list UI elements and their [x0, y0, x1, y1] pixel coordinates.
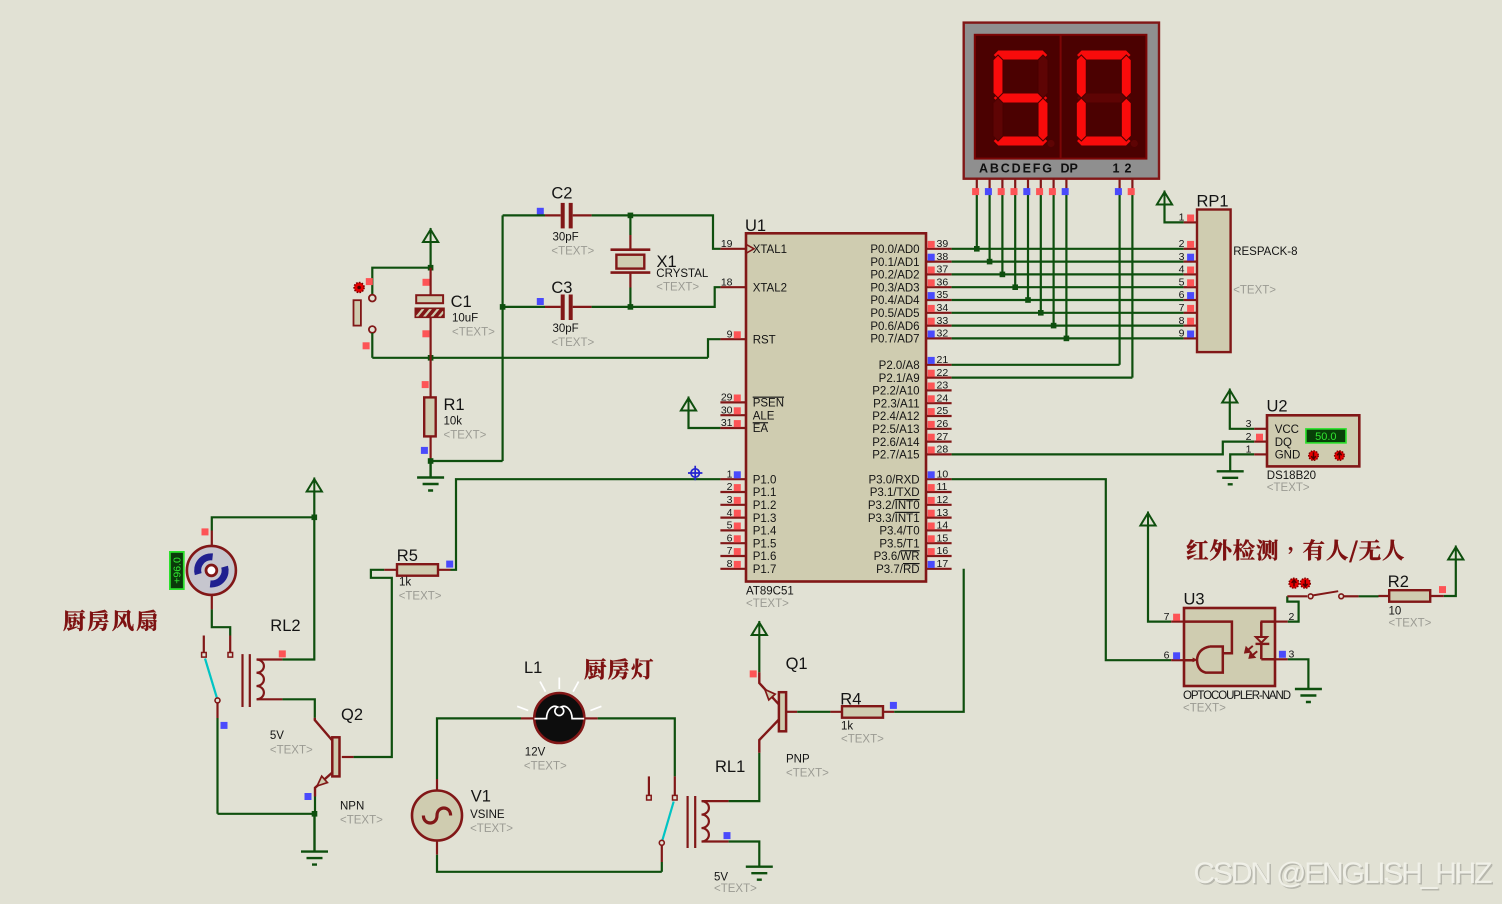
C2 left logic-state square	[537, 208, 544, 215]
junction R1 bottom node	[428, 458, 434, 464]
svg-text:8: 8	[1179, 315, 1185, 327]
svg-text:VSINE: VSINE	[470, 809, 505, 821]
fan bottom rail	[218, 813, 315, 815]
U1 pin 36 P0.3/AD3	[926, 286, 952, 288]
display segment pin C wire	[1001, 179, 1003, 192]
U1 pin 39 P0.0/AD0	[926, 248, 952, 250]
svg-text:<TEXT>: <TEXT>	[1183, 703, 1226, 715]
U1 pin 9 RST	[720, 338, 746, 340]
svg-text:30: 30	[721, 404, 733, 416]
svg-text:22: 22	[937, 367, 949, 379]
svg-text:CRYSTAL: CRYSTAL	[656, 268, 709, 280]
svg-text:P0.5/AD5: P0.5/AD5	[870, 308, 919, 320]
C3 left logic-state square	[537, 298, 544, 305]
mcu U1 AT89C51 body	[746, 233, 926, 581]
svg-text:2: 2	[1179, 238, 1185, 250]
svg-text:DS18B20: DS18B20	[1267, 470, 1316, 482]
svg-text:<TEXT>: <TEXT>	[340, 815, 383, 827]
svg-text:16: 16	[937, 545, 949, 557]
R1 bottom lead	[430, 436, 432, 461]
svg-text:<TEXT>: <TEXT>	[656, 282, 699, 294]
U2 pin 2	[1254, 441, 1267, 443]
relay RL1 NC post	[648, 776, 650, 795]
wire C3 right to X1 bottom node	[592, 306, 631, 308]
RL2 coil top logic-state square	[279, 650, 286, 657]
wire X1 node to XTAL1	[630, 215, 720, 248]
wire power to RP1 pin1	[1165, 205, 1184, 222]
U1 pin 1 P1.0	[720, 478, 746, 480]
svg-text:18: 18	[721, 276, 733, 288]
resistor R4	[842, 706, 883, 718]
svg-text:<TEXT>: <TEXT>	[714, 883, 757, 895]
svg-text:P2.0/A8: P2.0/A8	[879, 360, 920, 372]
RL1 pivot lead	[661, 846, 663, 863]
svg-text:P2.2/A10: P2.2/A10	[872, 386, 919, 398]
rail button/C1/RST	[372, 357, 708, 359]
wire switch to R2	[1359, 595, 1379, 597]
svg-text:C1: C1	[451, 293, 472, 311]
svg-text:L1: L1	[524, 659, 542, 677]
ground below RL1	[746, 867, 773, 880]
svg-text:5: 5	[1179, 276, 1185, 288]
wire Q2 emitter to rail	[314, 797, 316, 814]
wire R2 to power	[1444, 560, 1456, 596]
RP1 pin 9	[1184, 337, 1197, 339]
svg-text:13: 13	[937, 507, 949, 519]
svg-text:EA: EA	[753, 423, 769, 435]
svg-text:P2.1/A9: P2.1/A9	[879, 373, 920, 385]
svg-text:19: 19	[721, 238, 733, 250]
svg-text:<TEXT>: <TEXT>	[524, 761, 567, 773]
U1 pin 2 P1.1	[720, 491, 746, 493]
U1 pin 35 P0.4/AD4	[926, 299, 952, 301]
svg-text:GND: GND	[1275, 450, 1301, 462]
resistor pack RP1 body	[1197, 210, 1231, 353]
capacitor C2	[561, 203, 565, 229]
U1 pin 25 P2.4/A12	[926, 415, 952, 417]
svg-text:P3.3/INT1: P3.3/INT1	[868, 513, 920, 525]
power arrow above C1	[423, 228, 438, 243]
U1 pin 28 P2.7/A15	[926, 453, 952, 455]
IR switch up knob	[1289, 578, 1299, 588]
wire rail to RST pin	[708, 339, 720, 358]
junction C1 bottom	[428, 355, 434, 361]
wire button bottom to rail	[371, 333, 373, 358]
svg-text:37: 37	[937, 264, 949, 276]
button bottom logic-state square	[363, 342, 370, 349]
svg-text:U2: U2	[1267, 398, 1288, 416]
wire P2.7 to U2 DQ	[952, 442, 1255, 455]
svg-text:<TEXT>: <TEXT>	[786, 768, 829, 780]
motor rpm readout +96.0	[170, 552, 184, 589]
wire R1 node to ladder	[431, 460, 503, 462]
C1 top logic-state square	[423, 279, 430, 286]
L1 light rays	[517, 678, 601, 711]
U1 pin 3 P1.2	[720, 504, 746, 506]
U2 temperature readout 50.0	[1306, 429, 1346, 443]
svg-text:5V: 5V	[270, 730, 284, 742]
junction C1 top node	[428, 265, 434, 271]
wire RL2 pivot to rail	[216, 718, 218, 814]
wire V1 to L1	[437, 718, 521, 779]
svg-text:39: 39	[937, 238, 949, 250]
svg-text:P2.6/A14: P2.6/A14	[872, 437, 920, 449]
U1 pin 21 P2.0/A8	[926, 364, 952, 366]
wire C2 right to X1 top node	[592, 214, 631, 216]
U1 pin 16 P3.6/WR	[926, 555, 952, 557]
wire P0.1 bus row	[952, 261, 1184, 263]
wire power to U2 VCC	[1230, 403, 1254, 429]
svg-text:8: 8	[727, 558, 733, 570]
svg-text:V1: V1	[471, 788, 491, 806]
display segment pin D wire	[1014, 179, 1016, 192]
U1 pin 6 P1.5	[720, 542, 746, 544]
label infrared detection (Chinese)	[1187, 539, 1404, 562]
svg-text:OPTOCOUPLER-NAND: OPTOCOUPLER-NAND	[1183, 690, 1291, 702]
V1 bottom lead	[436, 841, 438, 855]
svg-text:XTAL1: XTAL1	[753, 244, 787, 256]
svg-text:30pF: 30pF	[553, 323, 579, 335]
U1 pin 27 P2.6/A14	[926, 441, 952, 443]
U1 pin 13 P3.3/INT1	[926, 516, 952, 518]
svg-text:P3.4/T0: P3.4/T0	[879, 526, 919, 538]
wire RL1 pivot to rail	[661, 862, 663, 872]
svg-text:11: 11	[937, 481, 948, 493]
svg-text:23: 23	[937, 380, 949, 392]
svg-text:6: 6	[1179, 289, 1185, 301]
svg-text:14: 14	[937, 520, 949, 532]
svg-text:P3.6/WR: P3.6/WR	[874, 551, 920, 563]
svg-text:P3.7/RD: P3.7/RD	[876, 564, 919, 576]
svg-text:VCC: VCC	[1275, 424, 1299, 436]
wire X1 bottom node to XTAL2	[630, 287, 720, 307]
U1 pin 10 P3.0/RXD	[926, 478, 952, 480]
R4 right logic-state square	[890, 702, 897, 709]
7-seg DP dot units	[1131, 140, 1138, 147]
wire power to EA	[689, 411, 721, 428]
svg-text:P1.6: P1.6	[753, 551, 777, 563]
svg-text:10k: 10k	[444, 416, 463, 428]
relay RL2 pivot	[215, 698, 220, 703]
ground below U3 pin3	[1295, 689, 1322, 702]
resistor R1	[424, 397, 436, 436]
svg-text:P1.3: P1.3	[753, 513, 777, 525]
svg-text:RESPACK-8: RESPACK-8	[1233, 246, 1297, 258]
U1 pin 14 P3.4/T0	[926, 529, 952, 531]
svg-text:3: 3	[1179, 251, 1185, 263]
wire Q2 base to R5	[354, 570, 392, 757]
U3 pin 3	[1275, 658, 1288, 660]
origin marker on P1.0 wire	[688, 466, 702, 480]
svg-text:R2: R2	[1388, 573, 1409, 591]
R1 bottom logic-state square	[421, 447, 428, 454]
U1 pin 34 P0.5/AD5	[926, 312, 952, 314]
svg-text:6: 6	[727, 532, 733, 544]
wire P0.6 bus row	[952, 325, 1184, 327]
wire U2 GND to ground	[1230, 454, 1254, 470]
wire Q1 base to R4	[797, 711, 830, 713]
wire motor bottom to RL2 contact	[212, 609, 230, 635]
transistor Q1 PNP	[759, 672, 779, 704]
RP1 pin 4	[1184, 273, 1197, 275]
R1 top logic-state square	[422, 381, 429, 388]
svg-text:<TEXT>: <TEXT>	[551, 246, 594, 258]
ground fan rail	[301, 814, 328, 865]
svg-text:U1: U1	[745, 217, 766, 235]
svg-text:P0.6/AD6: P0.6/AD6	[870, 321, 919, 333]
svg-text:3: 3	[727, 494, 733, 506]
svg-text:30pF: 30pF	[553, 232, 579, 244]
svg-text:P3.2/INT0: P3.2/INT0	[868, 500, 920, 512]
svg-text:26: 26	[937, 418, 949, 430]
RP1 pin 7	[1184, 312, 1197, 314]
U2 down-adjust knob	[1309, 451, 1319, 461]
U1 pin 23 P2.2/A10	[926, 389, 952, 391]
svg-text:10uF: 10uF	[452, 313, 478, 325]
wire L1 to RL1 contact	[598, 718, 675, 776]
svg-text:P3.0/RXD: P3.0/RXD	[868, 474, 919, 486]
RP1 pin 3	[1184, 261, 1197, 263]
resistor R2	[1389, 590, 1430, 602]
svg-text:AT89C51: AT89C51	[746, 586, 794, 598]
svg-text:P2.3/A11: P2.3/A11	[873, 398, 919, 410]
U3 pin 7	[1171, 620, 1184, 622]
svg-text:9: 9	[1179, 328, 1185, 340]
wire RL2 coil top to fan node	[282, 517, 314, 659]
svg-text:P0.3/AD3: P0.3/AD3	[870, 282, 919, 294]
7-seg digit units = 0	[1076, 50, 1131, 60]
svg-text:P0.4/AD4: P0.4/AD4	[870, 295, 920, 307]
svg-text:28: 28	[937, 444, 949, 456]
svg-text:7: 7	[727, 545, 733, 557]
Q1 emitter logic-state square	[750, 670, 757, 677]
ground below U2	[1217, 471, 1244, 484]
label kitchen fan (Chinese)	[64, 610, 157, 631]
R1 top lead	[430, 358, 432, 398]
svg-text:34: 34	[937, 302, 949, 314]
svg-text:36: 36	[937, 276, 949, 288]
IR switch left lead	[1287, 595, 1307, 597]
svg-text:25: 25	[937, 405, 949, 417]
svg-text:P2.5/A13: P2.5/A13	[872, 424, 919, 436]
wire U3 pin2 to switch	[1287, 596, 1298, 621]
svg-text:29: 29	[721, 392, 733, 404]
svg-text:P1.1: P1.1	[753, 487, 777, 499]
button interactive knob	[354, 283, 364, 293]
U1 pin 12 P3.2/INT0	[926, 504, 952, 506]
power arrow right of R2	[1448, 546, 1463, 561]
wire RL1 coil top to Q1 collector	[729, 753, 760, 801]
display segment pin B wire	[988, 179, 990, 192]
relay RL1 blade (cyan)	[663, 802, 674, 840]
7-segment display frame	[964, 23, 1159, 179]
C1 bottom logic-state square	[422, 330, 429, 337]
U1 pin 37 P0.2/AD2	[926, 273, 952, 275]
motor top lead	[211, 531, 213, 546]
wire P3.0 to U3 pin6	[952, 479, 1172, 660]
display segment pin E wire	[1027, 179, 1029, 192]
svg-text:1: 1	[1246, 444, 1252, 456]
wire P0.3 bus row	[952, 286, 1184, 288]
RL2 pivot lead	[216, 703, 218, 718]
svg-text:P1.4: P1.4	[753, 526, 777, 538]
relay RL2 blade (cyan)	[205, 659, 217, 698]
svg-text:9: 9	[727, 328, 733, 340]
7-seg digit tens = 5	[993, 50, 1048, 60]
RP1 pin 6	[1184, 299, 1197, 301]
svg-text:1: 1	[727, 468, 733, 480]
U1 pin 22 P2.1/A9	[926, 377, 952, 379]
display segment pin G wire	[1052, 179, 1054, 192]
display digit-2 pin wire	[1131, 179, 1133, 192]
wire P2.0 to digit-1	[952, 364, 1120, 366]
U1 pin 17 P3.7/RD	[926, 568, 952, 570]
U3 LED symbol	[1261, 622, 1275, 660]
junction fan rail	[312, 811, 318, 817]
power arrow at RP1 pin1	[1157, 191, 1172, 206]
optocoupler U3 body	[1184, 608, 1275, 686]
U1 pin 18 XTAL2	[720, 286, 746, 288]
push button	[369, 295, 376, 302]
svg-text:R1: R1	[444, 396, 465, 414]
IR switch down knob	[1300, 578, 1310, 588]
resistor R5	[397, 564, 438, 576]
svg-text:P1.0: P1.0	[753, 474, 777, 486]
wire power to C1 node	[430, 243, 432, 268]
svg-text:21: 21	[937, 354, 949, 366]
svg-text:RL1: RL1	[715, 758, 745, 776]
svg-text:PSEN: PSEN	[753, 398, 784, 410]
L1 left lead	[521, 717, 534, 719]
svg-text:5: 5	[727, 520, 733, 532]
svg-text:C3: C3	[551, 279, 572, 297]
svg-text:10: 10	[1389, 606, 1402, 618]
svg-text:7: 7	[1164, 611, 1170, 623]
display digit-1 pin wire	[1118, 179, 1120, 192]
wire R4 to P3.7	[894, 569, 964, 712]
U2 pin 3	[1254, 428, 1267, 430]
svg-text:+96.0: +96.0	[171, 557, 183, 584]
svg-text:<TEXT>: <TEXT>	[470, 823, 513, 835]
svg-text:<TEXT>: <TEXT>	[270, 745, 313, 757]
svg-text:<TEXT>: <TEXT>	[551, 337, 594, 349]
power arrow above U3 pin7	[1140, 512, 1155, 527]
svg-text:RP1: RP1	[1197, 193, 1229, 211]
svg-text:P2.7/A15: P2.7/A15	[872, 450, 919, 462]
svg-text:DQ: DQ	[1275, 437, 1292, 449]
L1 right lead	[584, 717, 597, 719]
crystal X1	[611, 250, 651, 273]
temperature sensor U2 DS18B20 body	[1267, 415, 1359, 466]
relay RL2 NO contact posts	[203, 636, 205, 653]
svg-text:RL2: RL2	[270, 617, 300, 635]
RP1 pin 2	[1184, 248, 1197, 250]
svg-text:P1.7: P1.7	[753, 564, 777, 576]
svg-text:3: 3	[1246, 418, 1252, 430]
motor top logic-state square	[202, 528, 209, 535]
svg-text:12V: 12V	[525, 747, 546, 759]
U1 pin 19 XTAL1	[720, 248, 746, 250]
transistor Q2 NPN	[315, 718, 333, 741]
svg-text:2: 2	[727, 481, 733, 493]
relay RL1 pivot	[659, 840, 664, 845]
svg-text:24: 24	[937, 392, 949, 404]
svg-text:1k: 1k	[841, 721, 853, 733]
svg-text:PNP: PNP	[786, 754, 810, 766]
V1 top lead	[436, 779, 438, 791]
svg-text:P3.5/T1: P3.5/T1	[879, 538, 919, 550]
wire P0.0 bus row	[952, 248, 1184, 250]
U2 pin 1	[1254, 453, 1267, 455]
svg-text:R4: R4	[840, 691, 861, 709]
U1 pin 29 PSEN	[720, 401, 746, 403]
wire power to Q1 emitter	[758, 636, 760, 673]
wire power to fan node	[313, 492, 315, 517]
wire P0.5 bus row	[952, 312, 1184, 314]
svg-text:P0.0/AD0: P0.0/AD0	[870, 244, 919, 256]
7-seg DP dot tens	[1047, 140, 1054, 147]
svg-text:P1.2: P1.2	[753, 500, 777, 512]
wire P2.1 to digit-2	[952, 377, 1133, 379]
ground below R1	[417, 461, 444, 491]
relay RL1 coil	[688, 796, 696, 848]
7-segment display panel	[975, 35, 1147, 159]
wire node to button top	[372, 268, 430, 295]
svg-text:Q1: Q1	[786, 655, 808, 673]
wire C2 left to ladder	[503, 214, 545, 216]
U3 NAND gate symbol	[1197, 647, 1223, 673]
power arrow above fan node	[307, 478, 322, 493]
svg-text:Q2: Q2	[341, 706, 363, 724]
svg-text:1k: 1k	[399, 577, 411, 589]
power arrow above Q1	[752, 621, 767, 636]
svg-text:35: 35	[937, 289, 949, 301]
IR switch	[1308, 594, 1313, 599]
wire C3 left to ladder	[503, 306, 545, 308]
U1 pin 7 P1.6	[720, 555, 746, 557]
wire power to U3 pin7	[1148, 526, 1171, 622]
wire P0.7 bus row	[952, 337, 1184, 339]
svg-text:NPN: NPN	[340, 801, 364, 813]
svg-text:15: 15	[937, 532, 949, 544]
U1 pin 8 P1.7	[720, 568, 746, 570]
svg-text:<TEXT>: <TEXT>	[746, 598, 789, 610]
Q2 emitter logic-state square	[305, 793, 312, 800]
power arrow at EA	[681, 397, 696, 412]
R5 right logic-state square	[446, 561, 453, 568]
display segment pin F wire	[1040, 179, 1042, 192]
svg-text:50.0: 50.0	[1315, 431, 1336, 443]
junction C3 left	[500, 304, 506, 310]
motor bottom lead	[211, 596, 213, 610]
U1 pin 30 ALE	[720, 414, 746, 416]
svg-text:P0.7/AD7: P0.7/AD7	[870, 334, 919, 346]
U2 up-adjust knob	[1335, 451, 1345, 461]
label kitchen lamp (Chinese)	[585, 658, 654, 679]
capacitor C1 polarized	[430, 268, 432, 358]
svg-text:27: 27	[937, 431, 949, 443]
svg-text:P0.2/AD2: P0.2/AD2	[870, 270, 919, 282]
wire RL1 coil bottom to ground	[729, 842, 760, 867]
svg-text:<TEXT>: <TEXT>	[399, 591, 442, 603]
svg-text:P3.1/TXD: P3.1/TXD	[870, 487, 920, 499]
svg-text:<TEXT>: <TEXT>	[444, 430, 487, 442]
svg-text:31: 31	[721, 417, 733, 429]
U1 pin 33 P0.6/AD6	[926, 325, 952, 327]
wire ladder C2-C3 vertical	[502, 215, 504, 461]
RP1 pin 8	[1184, 325, 1197, 327]
svg-text:CSDN @ENGLISH_HHZ: CSDN @ENGLISH_HHZ	[1194, 857, 1493, 890]
